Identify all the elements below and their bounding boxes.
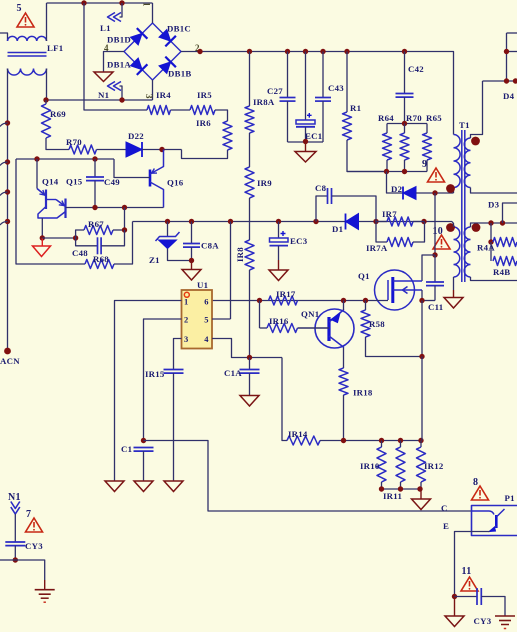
svg-text:C49: C49 [104, 177, 120, 187]
ground EC1 [305, 142, 307, 152]
resistor IR10 [381, 441, 383, 448]
svg-text:1: 1 [184, 297, 189, 307]
wire QN1 bottom to IR18 [343, 348, 345, 369]
wire collectors to ground node [41, 218, 43, 238]
wire R70 to D22 [97, 149, 127, 151]
resistor R58 [365, 301, 367, 311]
svg-text:D4: D4 [503, 91, 515, 101]
svg-text:IR9: IR9 [257, 178, 272, 188]
wire D2 node down [434, 193, 436, 255]
svg-text:QN1: QN1 [301, 309, 319, 319]
wire pin3 [174, 339, 182, 370]
capacitor C11 [434, 255, 436, 282]
svg-text:R58: R58 [369, 319, 385, 329]
earth ground right [495, 615, 515, 617]
transformer T1 core [461, 130, 463, 282]
capacitor C27 [287, 52, 289, 98]
capacitor C8A [191, 222, 193, 244]
capacitor EC3 electrolytic [278, 222, 280, 239]
transistor Q14 [36, 159, 38, 189]
warning marker 11 [461, 577, 478, 591]
ground C1A [240, 396, 259, 407]
resistor IR6 [223, 121, 232, 150]
wire R1 bottom [347, 140, 387, 172]
wire R67 column [124, 208, 126, 231]
svg-text:5: 5 [17, 3, 22, 14]
secondary-2 polarity dot [472, 223, 481, 232]
wire D4 branch [507, 32, 517, 34]
IC U1 body [182, 290, 213, 349]
capacitor C42 [404, 52, 406, 94]
svg-text:LF1: LF1 [47, 43, 63, 53]
svg-text:R4B: R4B [493, 267, 510, 277]
svg-text:4: 4 [104, 43, 109, 53]
wire D2 to T1 primary bottom [416, 192, 454, 194]
warning marker 5 [17, 13, 34, 27]
node L1 tap [119, 0, 124, 5]
svg-text:10: 10 [433, 226, 444, 237]
svg-text:9: 9 [422, 159, 427, 170]
svg-text:R68: R68 [93, 254, 109, 264]
node E/CY3 [452, 594, 457, 599]
svg-text:R64: R64 [378, 113, 394, 123]
svg-text:11: 11 [462, 566, 472, 577]
svg-text:CY3: CY3 [474, 616, 492, 626]
resistor R1 [346, 52, 348, 113]
svg-text:C48: C48 [72, 248, 88, 258]
svg-text:T1: T1 [459, 120, 470, 130]
wire rail down to T1 primary [452, 52, 455, 135]
svg-text:R4A: R4A [477, 243, 495, 253]
wire to D2 [387, 172, 404, 194]
bridge pin 2 [181, 51, 200, 53]
wire QN1 top [343, 301, 345, 311]
wire box top [16, 158, 114, 160]
svg-text:R70: R70 [406, 113, 422, 123]
T1 primary winding [454, 135, 461, 188]
svg-text:Q15: Q15 [66, 177, 83, 187]
MOSFET Q1 [375, 270, 415, 310]
svg-text:D22: D22 [128, 131, 144, 141]
svg-text:C1: C1 [121, 444, 132, 454]
svg-text:C8A: C8A [201, 241, 219, 251]
svg-text:3: 3 [184, 334, 189, 344]
optocoupler P1 box [472, 506, 517, 536]
svg-text:L1: L1 [100, 23, 111, 33]
wire top rail [47, 2, 153, 4]
resistor R65 [426, 124, 428, 134]
connector N1 [108, 82, 116, 91]
svg-text:EC3: EC3 [290, 236, 308, 246]
node on top rail [81, 0, 86, 5]
svg-text:DB1B: DB1B [168, 69, 192, 79]
wire Q16 base [114, 159, 150, 178]
svg-text:C27: C27 [267, 86, 283, 96]
wire LF1 top-right up to top rail [46, 3, 48, 41]
T1 secondary polarity dot [471, 137, 480, 146]
transistor Q16 [149, 170, 152, 187]
wire bottom rail [344, 440, 422, 442]
diode DB1C [159, 30, 171, 42]
svg-text:ACN: ACN [0, 356, 20, 366]
svg-text:IR8A: IR8A [253, 97, 275, 107]
svg-text:DB1A: DB1A [107, 60, 131, 70]
zener Z1 [167, 222, 169, 237]
resistor R4B [490, 242, 492, 261]
svg-text:5: 5 [204, 315, 209, 325]
capacitor C43 [322, 52, 324, 98]
node ACN terminal [4, 348, 11, 355]
wire LF1 bottom-right down [46, 69, 48, 101]
svg-text:IR14: IR14 [288, 429, 308, 439]
wire AC line into LF1 [0, 33, 8, 41]
svg-text:Q1: Q1 [358, 271, 370, 281]
bridge pin 3 [152, 80, 154, 100]
svg-text:DB1C: DB1C [167, 24, 191, 34]
wire CY3 to earth [0, 559, 15, 561]
svg-text:D1: D1 [332, 224, 343, 234]
svg-text:R67: R67 [88, 219, 104, 229]
resistor IR11 [400, 441, 402, 448]
resistor IR4 [147, 106, 171, 115]
resistor R69 [45, 100, 47, 104]
wire IR4-IR5 [171, 109, 191, 111]
svg-text:R69: R69 [50, 109, 66, 119]
wire cap bottoms [288, 141, 324, 143]
warning marker 7 [26, 518, 43, 532]
svg-text:6: 6 [204, 297, 209, 307]
svg-text:Q16: Q16 [167, 178, 184, 188]
svg-text:Q14: Q14 [42, 177, 59, 187]
svg-text:IR7: IR7 [382, 209, 397, 219]
node hooks on ACN line [5, 120, 10, 125]
wire gate rail [212, 300, 388, 302]
ground resistor bank [420, 489, 422, 499]
capacitor C1 [134, 447, 154, 449]
svg-text:IR7A: IR7A [366, 243, 388, 253]
svg-text:IR4: IR4 [156, 90, 171, 100]
resistor R70 [404, 124, 406, 134]
node D22/Q16 [159, 147, 164, 152]
svg-text:C: C [441, 503, 448, 513]
warning marker 9 [428, 168, 445, 182]
capacitor IR15 [164, 369, 184, 371]
wire drain branch [422, 255, 435, 281]
resistor IR7 [376, 221, 387, 223]
wire R68 right up to Z1 rail [114, 222, 133, 265]
common-mode choke LF1 [8, 36, 47, 41]
capacitor CY3 input [14, 514, 16, 542]
wire resistor bottoms [382, 488, 422, 490]
wire pin4 node down to IR14 [282, 358, 287, 441]
svg-text:C8: C8 [315, 183, 327, 193]
wire ACN vertical [7, 69, 9, 352]
warning marker 10 [433, 235, 450, 249]
diode DB1B [159, 62, 171, 74]
connector L1 [108, 13, 116, 22]
wire Q15 base line [66, 207, 164, 209]
wire IR8 bottom to C1A node [249, 270, 251, 358]
wire box left [16, 159, 85, 264]
svg-text:7: 7 [26, 509, 31, 520]
resistor R67 [76, 230, 84, 238]
svg-text:IR15: IR15 [145, 369, 165, 379]
earth ground left [35, 589, 55, 591]
T1 secondary top winding [464, 138, 470, 188]
svg-text:8: 8 [473, 477, 478, 488]
diode DB1D [131, 33, 143, 45]
diode D2 [403, 187, 416, 200]
svg-text:U1: U1 [197, 280, 208, 290]
svg-text:1: 1 [142, 2, 152, 7]
wire secondary-2 top to R4A/D3 [471, 223, 517, 227]
svg-text:C1A: C1A [224, 368, 242, 378]
wire R58 column down [421, 357, 423, 441]
wire pin1 [115, 301, 182, 482]
signal ground red [41, 238, 43, 246]
svg-text:Z1: Z1 [149, 255, 160, 265]
P1 phototransistor [472, 511, 495, 515]
wire top AC branch [84, 3, 147, 110]
svg-text:IR16: IR16 [269, 316, 289, 326]
resistor IR8 [249, 198, 251, 240]
resistor IR9 [249, 133, 251, 167]
resistor R68 [85, 260, 114, 269]
svg-text:P1: P1 [505, 493, 515, 503]
wire C11 bottom to source [422, 300, 435, 302]
wire R64/R70/R65 tops [387, 123, 427, 125]
svg-text:IR10: IR10 [360, 461, 380, 471]
wire secondary top bottom-end to D3 row [471, 188, 517, 194]
resistor IR18 [339, 368, 348, 395]
svg-text:D3: D3 [488, 200, 500, 210]
wire Z1 rail [133, 221, 453, 223]
resistor R4A [490, 223, 492, 242]
diode D22 [126, 142, 142, 157]
Q14/Q15 collector link [38, 207, 66, 219]
wire resistor bottoms rail [386, 160, 388, 172]
svg-text:N1: N1 [98, 90, 109, 100]
svg-text:R65: R65 [426, 113, 442, 123]
bridge pin 1 [152, 3, 154, 23]
wire source down [421, 290, 423, 301]
T1 primary polarity dot [446, 184, 455, 193]
svg-text:IR8: IR8 [235, 247, 245, 262]
svg-text:IR6: IR6 [196, 118, 211, 128]
svg-text:R1: R1 [350, 103, 361, 113]
ground pin1 [105, 481, 124, 492]
wire D3 branch [503, 203, 517, 223]
wire secondary-2 bottom out [471, 277, 517, 281]
svg-text:DB1D: DB1D [107, 35, 131, 45]
svg-text:R70: R70 [66, 137, 82, 147]
aux winding polarity dot [446, 223, 455, 232]
svg-text:IR11: IR11 [383, 491, 402, 501]
capacitor EC1 electrolytic [305, 52, 307, 121]
resistor IR7A [376, 222, 387, 243]
resistor R70 [69, 145, 97, 154]
wire D22 to node [142, 149, 182, 151]
svg-text:4: 4 [204, 334, 209, 344]
warning marker 8 [472, 486, 489, 500]
wire feedback to pin5 [230, 222, 232, 320]
capacitor C1A [249, 358, 251, 370]
capacitor C48 [76, 238, 98, 246]
wire N1 line [46, 99, 153, 101]
wire to IR6 bottom [182, 150, 228, 159]
svg-text:N1: N1 [8, 492, 21, 503]
wire R69 to R70 [46, 138, 69, 150]
svg-text:C42: C42 [408, 64, 424, 74]
svg-text:C43: C43 [328, 83, 344, 93]
svg-text:2: 2 [184, 315, 189, 325]
wire C1 node to C rail [144, 441, 472, 512]
resistor R64 [386, 124, 388, 134]
transistor QN1 [315, 309, 354, 348]
ground pin2 [134, 481, 153, 492]
resistor IR8A [249, 52, 251, 107]
capacitor CY3 output [455, 596, 478, 598]
svg-text:IR5: IR5 [197, 90, 212, 100]
bridge pin 4 to ground arrow [104, 52, 125, 73]
ground C8A [191, 261, 193, 270]
capacitor C49 [94, 159, 96, 177]
diode D1 [346, 214, 359, 230]
svg-text:IR17: IR17 [276, 289, 296, 299]
svg-text:IR12: IR12 [424, 461, 444, 471]
wire pin4 [212, 339, 282, 358]
wire main DC rail [200, 51, 453, 53]
svg-text:IR18: IR18 [353, 388, 373, 398]
svg-text:EC1: EC1 [305, 131, 322, 141]
svg-text:CY3: CY3 [25, 541, 43, 551]
diode DB1A [131, 58, 143, 70]
transistor Q15 with Q14 links [46, 199, 56, 201]
ground pin3 [164, 481, 183, 492]
resistor IR16 [259, 301, 261, 329]
T1 aux winding left [454, 227, 460, 277]
resistor IR14 [287, 436, 320, 445]
ground EC3 [278, 260, 280, 270]
svg-text:E: E [443, 521, 449, 531]
svg-text:C11: C11 [428, 302, 443, 312]
wire ground node to C48 node [42, 237, 75, 239]
svg-text:3: 3 [144, 94, 154, 99]
svg-text:D2: D2 [391, 184, 403, 194]
resistor IR12 [420, 441, 422, 448]
ground arrow under pin4 [94, 72, 113, 82]
wire aux-left bottom to ground [453, 277, 455, 290]
ground E node [454, 597, 456, 617]
wire E lead [455, 532, 490, 597]
wire IR5 to IR6 [215, 110, 228, 121]
resistor IR5 [190, 106, 215, 115]
node CY3 [13, 557, 18, 562]
wire pin2 [144, 319, 182, 441]
wire pin5 [212, 318, 231, 320]
bridge rectifier diamond [124, 23, 181, 80]
T1 secondary bottom winding [464, 227, 470, 277]
capacitor C8 [316, 196, 328, 222]
resistor IR17 [269, 296, 298, 305]
